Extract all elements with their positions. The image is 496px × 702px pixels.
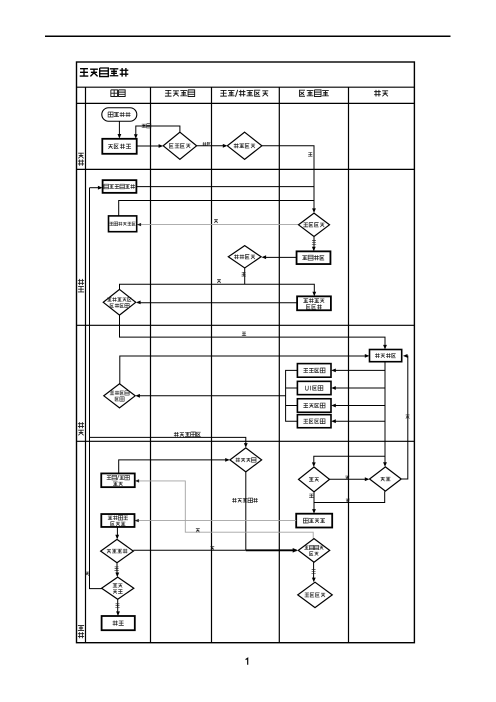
wire 内容验收否→发起版本交付(长返回线): [90, 188, 102, 589]
process 脚本制作: [297, 251, 331, 264]
column border 技术商务/生产: [348, 87, 350, 643]
process 生产制作: [370, 350, 402, 362]
wire 交付内容及周期→确认: [136, 301, 297, 305]
row border 立项/生产: [77, 324, 415, 326]
row label 交付: [78, 626, 84, 639]
wire 产品交付→内容验收: [115, 563, 119, 577]
wire 产品交付否→修改意见审核: [133, 548, 298, 553]
decision 合同审核: [227, 132, 262, 159]
wire 申请立项→需求审核: [137, 144, 164, 148]
wire 合同审核→资料审核: [262, 146, 316, 213]
wire 资料审核→脚本制作: [312, 237, 316, 252]
decision 中间环节确认: [104, 384, 135, 408]
wire 质检→提交产品: [312, 492, 316, 514]
label 是 付款审核: [242, 272, 246, 276]
label strip border: [85, 87, 87, 643]
process UI确认: [297, 381, 331, 394]
wire 返修↓合流: [314, 491, 385, 502]
label 否 横线284: [217, 279, 221, 283]
wire 补充协议↓: [245, 472, 247, 551]
label 否 返修下: [346, 499, 350, 503]
wire 生产接单后线: [90, 437, 248, 447]
wire 付款审核→分界线: [244, 268, 246, 284]
wire 横线284: [120, 284, 317, 296]
wire 内容验收→结项: [116, 599, 120, 616]
wire 中间环节确认→生产制作: [120, 354, 370, 384]
wire →资料确认: [331, 419, 385, 423]
wire 确认→生产制作: [120, 315, 387, 349]
header row border: [77, 102, 415, 104]
label 是 产品交付: [114, 567, 118, 571]
process 提交产品: [296, 514, 332, 528]
wire 返修→生产制作: [401, 354, 408, 479]
label 是 确认: [242, 332, 246, 336]
wire 否 资料审核→上传补充资料: [137, 223, 299, 226]
header 财务/合同审核: [220, 90, 268, 97]
page top rule: [45, 35, 451, 37]
label 是 质检: [309, 494, 313, 498]
wire →UI确认: [331, 386, 385, 390]
wire 发起版本交付→合流: [136, 186, 314, 188]
process 规划确认: [297, 364, 331, 378]
decision 交付内容及周期确认: [103, 289, 136, 315]
label 否 资料审核: [214, 219, 218, 223]
wire 生产制作↓主干: [384, 362, 386, 466]
label 驳回: [142, 124, 151, 128]
label 否 质检: [345, 476, 349, 480]
process 交付说明及产品: [101, 514, 134, 527]
decision 资料审核: [299, 213, 330, 236]
wire 上传补充资料→资料审核回路: [119, 201, 314, 216]
label 否 修改意见: [196, 529, 200, 533]
process 发起版本交付: [103, 180, 137, 193]
process 结项: [102, 616, 135, 630]
row label 签约: [78, 153, 84, 166]
process 资料确认: [297, 415, 331, 428]
wire 修改意见审核否→变更追加内容: [135, 479, 313, 538]
decision 修改意见审核: [298, 539, 329, 563]
label 通过: [203, 142, 211, 146]
row label 生产: [78, 422, 84, 435]
header 区域总监: [165, 90, 195, 97]
wire 驳回 需求审核→申请立项: [134, 126, 180, 139]
process 模块确认: [297, 399, 331, 413]
row border 签约/立项: [77, 168, 415, 170]
process 申请立项: [102, 139, 136, 154]
process 变更/追加内容: [101, 473, 135, 487]
label 否 内容验收: [85, 572, 89, 576]
label 是 修改意见: [311, 570, 315, 574]
header 技术商务: [299, 90, 328, 97]
column border 区域总监/财务: [211, 87, 213, 643]
label 是 资料审核: [312, 241, 316, 245]
header 生产: [374, 90, 388, 97]
column border 市场/区域总监: [150, 87, 152, 643]
title row border: [77, 86, 415, 88]
page number 1: [246, 658, 248, 665]
process 上传补充资料: [109, 216, 137, 232]
table outer frame: [77, 62, 415, 643]
wire 质检→返修: [329, 477, 369, 481]
decision 资料审核2: [298, 582, 333, 607]
wire →规划确认: [331, 369, 385, 373]
wire 确认组→中间环节确认: [135, 394, 285, 398]
wire →模块确认: [331, 404, 385, 408]
label 生产接单前: [232, 498, 258, 503]
column border 财务/技术商务: [278, 87, 280, 643]
label 否 返修: [406, 415, 410, 419]
row border 生产/交付: [77, 440, 415, 442]
wire 需求审核→合同审核: [197, 144, 228, 148]
label 生产接单后: [174, 432, 201, 437]
decision 内容验收: [102, 577, 134, 599]
decision 补充协议: [230, 448, 262, 472]
row label 立项: [78, 279, 84, 292]
decision 产品交付: [101, 539, 134, 562]
header 市场: [111, 90, 125, 97]
wire 业务洽谈→申请立项: [118, 121, 122, 138]
decision 质检: [299, 467, 330, 492]
wire 交付说明及产品→产品交付: [115, 527, 119, 540]
title 项目主流程: [80, 68, 129, 77]
wire 变更追加内容→补充协议: [119, 458, 230, 474]
start 业务洽谈: [102, 108, 137, 122]
process 交付内容及周期: [297, 296, 331, 310]
label 否 产品交付: [210, 547, 214, 551]
wire 修改意见审核→资料审核2: [312, 562, 316, 582]
decision 需求审核: [163, 132, 196, 159]
label 是 内容验收: [115, 604, 119, 608]
wire 生产制作→质检组: [312, 456, 387, 467]
wire 确认组合流竖线: [286, 370, 298, 421]
wire 提交产品→交付说明及产品: [135, 519, 297, 522]
decision 返修: [370, 467, 402, 491]
label 是 合同审核: [308, 152, 312, 156]
decision 付款审核: [228, 246, 261, 268]
wire 脚本制作→付款审核: [262, 255, 297, 259]
wire 返回线→发起版本交付: [90, 186, 103, 190]
